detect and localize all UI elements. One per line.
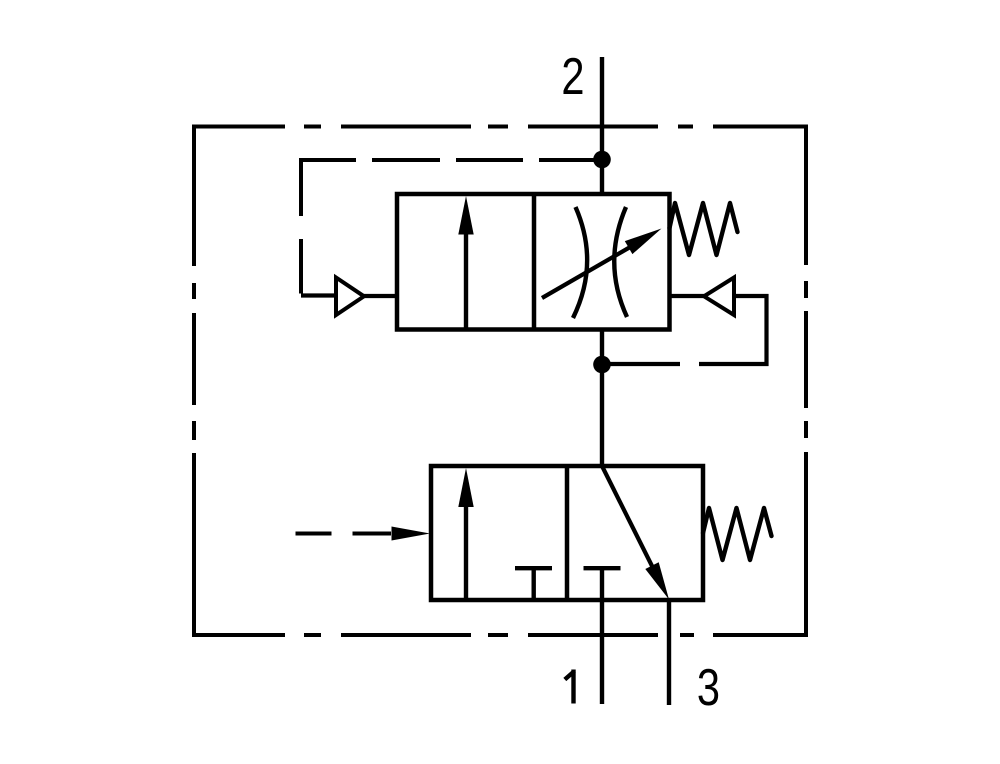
valve V2 left cell blocked port T <box>515 568 552 600</box>
valve V1 left cell flow arrow <box>464 232 468 330</box>
enclosure border right edge (dash-dot) <box>804 125 808 638</box>
enclosure border left edge (dash-dot) <box>192 125 196 638</box>
throttle adjust arrow diagonal <box>542 246 632 298</box>
pilot signal arrow into valve V2 (dashed) <box>296 532 392 536</box>
wire pilot stub to left triangle <box>301 293 336 297</box>
valve V2 divider <box>565 466 570 600</box>
valve V2 right cell blocked port T <box>584 568 621 600</box>
pilot triangle right (points left) <box>704 278 734 316</box>
enclosure border top edge (dash-dot) <box>194 125 806 129</box>
wire valve V1 to valve V2 <box>600 330 604 467</box>
valve V1 divider <box>532 194 537 330</box>
port 3 line <box>667 600 671 705</box>
svg-text:3: 3 <box>697 658 720 717</box>
enclosure border bottom edge (dash-dot) <box>194 633 806 637</box>
node junction dot (port 2 / pilot) <box>593 151 611 169</box>
throttle arc right <box>614 207 627 317</box>
spring V1 (top right) <box>670 203 738 255</box>
pilot line dashed vertical <box>299 158 303 294</box>
throttle arc left <box>573 207 587 318</box>
label 1 <box>565 670 575 704</box>
valve V2 body (3/2 valve) <box>431 466 703 600</box>
valve V2 left cell flow arrow <box>464 505 468 600</box>
wire feedback from triangle base <box>610 294 769 366</box>
svg-text:2: 2 <box>561 47 584 106</box>
valve V1 body (flow control) <box>397 194 670 330</box>
pilot triangle left (points right) <box>336 278 364 316</box>
wire triangle to valve V1 <box>363 294 398 298</box>
node junction dot (between valves) <box>593 356 611 374</box>
spring V2 (right) <box>703 508 772 560</box>
port 2 line <box>600 57 604 196</box>
pilot line dashed horizontal to junction <box>299 158 598 162</box>
valve V2 right cell diagonal flow arrow <box>602 466 655 572</box>
wire valve V1 to right pilot triangle <box>670 294 706 298</box>
port 1 line <box>600 600 604 704</box>
